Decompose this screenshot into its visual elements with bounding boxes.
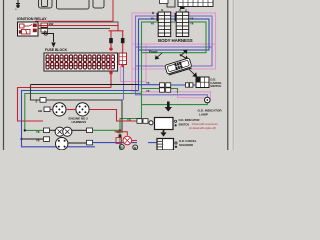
svg-text:FUSE BLOCK: FUSE BLOCK	[45, 48, 68, 52]
svg-text:HARNESS: HARNESS	[72, 120, 87, 124]
svg-text:Closed with no pressure: Closed with no pressure	[192, 123, 218, 126]
svg-text:Y6: Y6	[151, 21, 155, 25]
svg-text:SWITCH: SWITCH	[210, 84, 221, 88]
svg-text:Y5: Y5	[146, 81, 150, 85]
svg-text:HB: HB	[38, 109, 42, 113]
svg-text:Front: Front	[149, 50, 158, 54]
svg-text:IGNITION RELAY: IGNITION RELAY	[17, 17, 47, 21]
svg-text:(or diesel with engine off): (or diesel with engine off)	[189, 127, 216, 130]
svg-text:LAMP: LAMP	[199, 113, 208, 117]
svg-text:BODY HARNESS: BODY HARNESS	[158, 38, 193, 43]
svg-text:O.D. INDICATOR: O.D. INDICATOR	[179, 118, 200, 122]
svg-text:Y5: Y5	[190, 17, 194, 21]
svg-text:SOLENOID: SOLENOID	[179, 143, 193, 147]
svg-text:+B: +B	[127, 117, 131, 121]
svg-text:Y6: Y6	[36, 130, 40, 134]
svg-text:Y5: Y5	[151, 17, 155, 21]
svg-text:Y6: Y6	[146, 89, 150, 93]
svg-text:O.D. CANCEL: O.D. CANCEL	[179, 139, 197, 143]
svg-text:SWITCH: SWITCH	[179, 122, 190, 126]
svg-text:Y6: Y6	[190, 21, 194, 25]
svg-text:S: S	[36, 99, 38, 103]
